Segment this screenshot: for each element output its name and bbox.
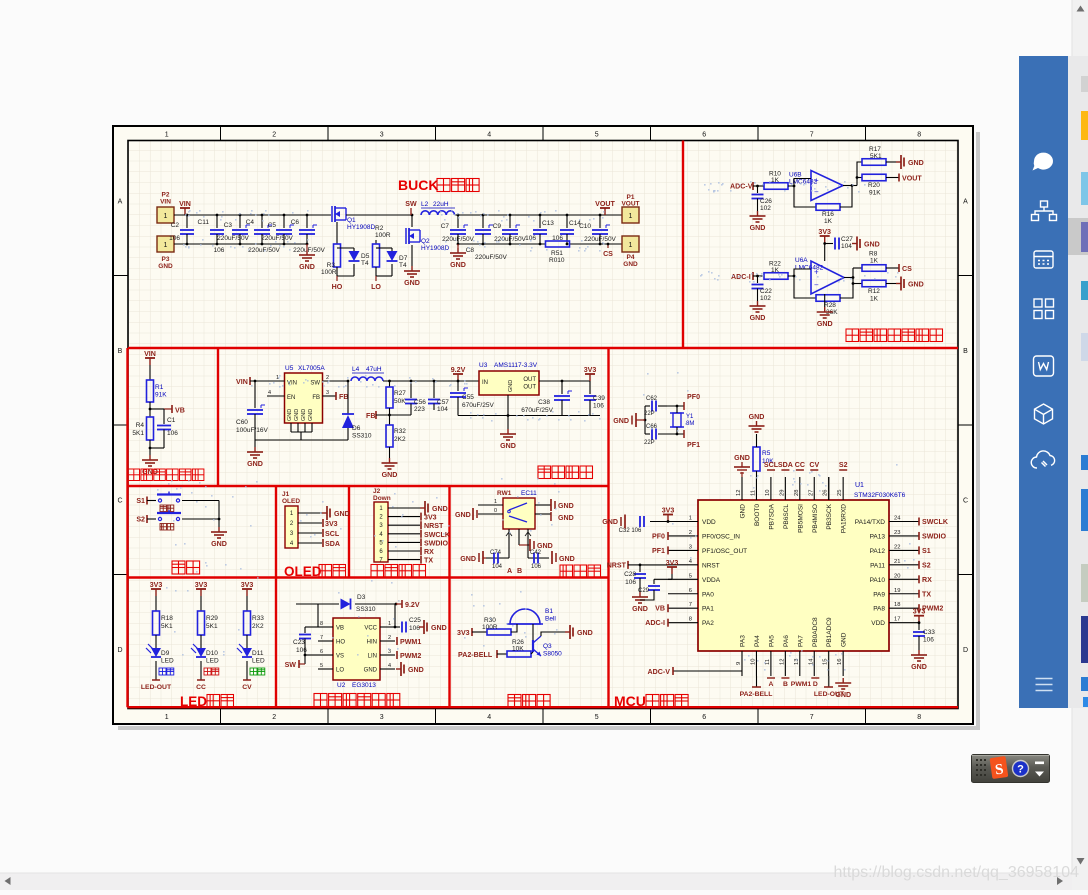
svg-text:U2: U2 [337, 682, 346, 689]
ground U2 pin4 [396, 668, 401, 670]
svg-text:C23: C23 [293, 639, 305, 646]
ground C74 [482, 551, 484, 564]
resistor R18 5K1 [155, 596, 157, 611]
svg-text:VB: VB [655, 605, 665, 613]
pins U1 bottom side [741, 651, 743, 676]
resistor R10 1K [764, 183, 788, 190]
svg-text:C13: C13 [542, 220, 554, 227]
svg-text:6: 6 [702, 714, 706, 721]
resistor R4 5K1 [147, 417, 154, 440]
svg-text:LED: LED [180, 694, 207, 709]
capacitor C5 [283, 215, 285, 228]
capacitor C29 106 [654, 578, 672, 580]
svg-text:MCU: MCU [614, 693, 646, 709]
svg-text:CC: CC [795, 461, 805, 469]
diode D6 SS310 [347, 381, 349, 414]
svg-text:106: 106 [531, 564, 542, 570]
svg-text:C1: C1 [167, 417, 176, 424]
capacitor C60 100uF/16V [254, 381, 256, 408]
svg-text:ADC-I: ADC-I [645, 619, 665, 627]
svg-text:11: 11 [750, 490, 756, 496]
svg-text:C9: C9 [493, 223, 502, 230]
wire aux top rail [383, 380, 479, 382]
svg-text:VIN: VIN [160, 199, 171, 206]
svg-text:3: 3 [689, 544, 692, 550]
svg-text:3V3: 3V3 [457, 629, 470, 637]
power 3V3 R33 [246, 589, 248, 596]
port P2 VIN [157, 207, 174, 223]
svg-text:C56: C56 [414, 399, 426, 406]
sogou help button [1013, 761, 1029, 777]
svg-text:7: 7 [810, 132, 814, 139]
block title 输入电压检测 [128, 469, 140, 481]
svg-text:GND: GND [455, 511, 471, 519]
ground C27 [852, 243, 857, 245]
svg-text:PWM1: PWM1 [400, 638, 421, 646]
svg-text:12: 12 [779, 659, 785, 665]
svg-text:PA2-BELL: PA2-BELL [740, 691, 773, 698]
net label ADC-V wire to pin9 [673, 670, 742, 672]
net label LO [375, 276, 377, 281]
svg-text:PF0: PF0 [687, 393, 700, 401]
svg-text:PB3SCK: PB3SCK [826, 503, 833, 529]
svg-text:CC: CC [196, 684, 206, 691]
svg-text:GND: GND [247, 460, 263, 468]
net label NRST pin4 [640, 564, 668, 566]
net label 9.2V halfbridge [395, 603, 398, 606]
svg-text:8: 8 [917, 714, 921, 721]
svg-text:220uF/50V: 220uF/50V [293, 247, 325, 254]
svg-text:S1: S1 [922, 547, 931, 555]
ground under pin16 [842, 678, 844, 683]
capacitor C26 102 [757, 186, 759, 193]
svg-text:PA13: PA13 [870, 533, 886, 540]
svg-text:S2: S2 [839, 461, 848, 469]
svg-text:47uH: 47uH [366, 366, 382, 373]
svg-text:C55: C55 [462, 394, 474, 401]
block title 半桥驱动芯片 [314, 694, 327, 707]
pin wires U5 [267, 380, 285, 382]
svg-text:NRST: NRST [424, 522, 444, 530]
svg-text:BOOT0: BOOT0 [754, 504, 761, 526]
svg-text:EG3013: EG3013 [352, 682, 376, 689]
ground Q2 source [411, 245, 413, 266]
svg-text:GND: GND [508, 380, 514, 392]
wires U5 ground pins [290, 423, 292, 432]
power 3V3 pin17 [918, 616, 920, 623]
svg-text:D5: D5 [361, 253, 370, 260]
svg-text:22P: 22P [644, 440, 655, 446]
resistor R27 50K [389, 381, 391, 387]
ground above R5 [756, 434, 758, 447]
capacitor C33 106 [918, 623, 920, 630]
svg-text:C74: C74 [490, 550, 502, 556]
svg-text:RW1: RW1 [497, 490, 512, 497]
svg-text:GND: GND [334, 510, 350, 518]
power 3V3 pin1 [667, 515, 669, 522]
capacitor C1 106 [163, 409, 165, 424]
svg-text:106: 106 [923, 637, 934, 644]
svg-text:2K2: 2K2 [394, 436, 406, 443]
ground C60 [254, 447, 256, 452]
svg-text:SW: SW [285, 661, 297, 669]
LED D9 [155, 635, 157, 648]
svg-text:100R: 100R [482, 624, 498, 631]
svg-text:10: 10 [750, 659, 756, 665]
ground C32 [624, 515, 626, 529]
svg-text:26: 26 [823, 490, 829, 496]
capacitor C32 106 [650, 521, 668, 523]
svg-text:21: 21 [894, 559, 900, 565]
svg-text:R8: R8 [869, 251, 878, 258]
svg-text:C32 106: C32 106 [619, 528, 642, 534]
svg-text:R20: R20 [868, 182, 880, 189]
svg-text:3V3: 3V3 [584, 366, 597, 374]
power 3V3 R18 [155, 589, 157, 596]
compile mark speckles [222, 211, 224, 213]
svg-text:C6: C6 [291, 219, 300, 226]
port P4 GND [622, 236, 639, 252]
svg-text:PF1/OSC_OUT: PF1/OSC_OUT [702, 548, 747, 555]
svg-text:C10: C10 [579, 223, 591, 230]
wire to ground node [149, 440, 151, 455]
svg-text:5: 5 [595, 132, 599, 139]
svg-text:STM32F030K6T6: STM32F030K6T6 [854, 492, 906, 499]
color label D11 [250, 668, 257, 675]
svg-text:U6B: U6B [789, 172, 802, 179]
svg-text:PA9: PA9 [873, 591, 885, 598]
svg-text:ADC-V: ADC-V [730, 183, 753, 191]
svg-text:SCL: SCL [325, 530, 340, 538]
svg-text:R1: R1 [155, 384, 164, 391]
svg-text:Bell: Bell [545, 616, 556, 623]
sheet outer frame [113, 126, 973, 724]
svg-text:12: 12 [736, 490, 742, 496]
svg-text:R28: R28 [824, 302, 836, 309]
wire pin26 stub [828, 477, 830, 500]
svg-text:D: D [117, 647, 122, 654]
svg-text:GND: GND [404, 279, 420, 287]
pins U1 left side [668, 521, 698, 523]
net label LED-OUT under pin15 [828, 676, 830, 687]
pins U1 right side [889, 521, 919, 523]
svg-text:9.2V: 9.2V [451, 366, 466, 374]
svg-text:L2: L2 [421, 201, 429, 208]
svg-text:PB5MOSI: PB5MOSI [797, 504, 804, 533]
wire SW node [346, 214, 412, 216]
svg-text:R12: R12 [868, 288, 880, 295]
svg-text:GND: GND [294, 409, 300, 421]
capacitor C11 [216, 215, 218, 228]
toolbar icon hamburger menu [1036, 679, 1053, 691]
power 3V3 VDDA [671, 567, 673, 574]
svg-text:PB6SCL: PB6SCL [783, 504, 790, 529]
resistor R33 2K2 [246, 596, 248, 611]
transistor Q1 HY1908D [331, 206, 333, 222]
svg-text:https://blog.csdn.net/qq_36958: https://blog.csdn.net/qq_36958104 [833, 864, 1079, 881]
net label CS [607, 244, 609, 248]
svg-text:R2: R2 [375, 225, 384, 232]
thumbnail block 8 [1081, 564, 1088, 602]
ground switches [218, 527, 220, 532]
svg-text:Down: Down [373, 495, 391, 502]
svg-text:220uF/50V: 220uF/50V [217, 235, 249, 242]
buzzer B1 [510, 609, 540, 624]
svg-text:18: 18 [894, 602, 900, 608]
svg-text:OLED: OLED [284, 564, 322, 579]
svg-text:T4: T4 [361, 260, 369, 267]
ground input bus [306, 244, 308, 250]
thumbnail block 2 [1081, 111, 1088, 140]
net labels right of U1 [918, 518, 920, 526]
svg-text:C: C [963, 497, 968, 504]
wires encoder bottom pins [508, 529, 510, 540]
svg-text:GND: GND [911, 663, 927, 671]
net label ADC-I pin8 [667, 619, 669, 627]
svg-text:GND: GND [431, 624, 447, 632]
svg-text:B1: B1 [545, 608, 553, 615]
wire output bus [455, 214, 622, 216]
svg-text:14: 14 [808, 658, 814, 665]
wire R26 to base [531, 652, 533, 654]
block title 辅助电源 [538, 466, 551, 479]
svg-text:4: 4 [487, 132, 491, 139]
LED D11 [246, 635, 248, 648]
svg-text:7: 7 [689, 602, 692, 608]
ground R32 [389, 458, 391, 463]
svg-text:106: 106 [409, 625, 420, 632]
svg-text:OLED: OLED [282, 498, 300, 505]
svg-text:HIN: HIN [367, 640, 377, 646]
IC U3 AMS1117-3.3V [479, 371, 539, 395]
capacitor C28 106 [639, 565, 641, 572]
svg-text:D: D [963, 647, 968, 654]
wire output bottom bus [458, 243, 545, 245]
svg-text:GND: GND [301, 409, 307, 421]
resistor R5 10K [753, 447, 760, 471]
svg-text:25: 25 [837, 490, 843, 496]
svg-text:220uF/50V: 220uF/50V [442, 236, 474, 243]
svg-text:7: 7 [810, 714, 814, 721]
resistor R32 2K2 [389, 415, 391, 425]
svg-text:670uF/25V: 670uF/25V [521, 407, 553, 414]
color label D9 [159, 668, 166, 675]
svg-text:C57: C57 [437, 399, 449, 406]
svg-text:VCC: VCC [364, 626, 377, 632]
svg-text:B: B [783, 681, 788, 688]
svg-text:C: C [117, 497, 122, 504]
svg-text:220uF/50V: 220uF/50V [475, 254, 507, 261]
thumbnail block 7 [1081, 489, 1088, 531]
svg-text:91K: 91K [869, 190, 881, 197]
svg-text:RX: RX [424, 548, 434, 556]
svg-text:−: − [814, 280, 819, 289]
resistor R16 1K feedback [816, 204, 840, 211]
svg-text:SDA: SDA [325, 540, 340, 548]
svg-text:U6A: U6A [795, 257, 808, 264]
toolbar icon calendar [1034, 251, 1053, 268]
wire VCC node [394, 604, 396, 627]
svg-text:Q2: Q2 [421, 238, 430, 245]
browser vertical scrollbar bottom [1072, 708, 1088, 873]
svg-text:220uF/50V: 220uF/50V [261, 235, 293, 242]
wire ADC-V to R10 [753, 185, 764, 187]
resistor R3 100R [336, 222, 338, 244]
svg-text:D3: D3 [357, 594, 366, 601]
svg-text:PA7: PA7 [797, 635, 804, 647]
svg-text:HO: HO [336, 640, 345, 646]
svg-text:VOUT: VOUT [595, 200, 615, 208]
svg-text:PA8: PA8 [873, 606, 885, 613]
svg-text:GND: GND [749, 413, 765, 421]
svg-text:GND: GND [558, 514, 574, 522]
svg-text:5K1: 5K1 [161, 623, 173, 630]
svg-text:3: 3 [388, 649, 391, 655]
svg-text:PB4MISO: PB4MISO [812, 504, 819, 533]
wire ADC-I to R22 [753, 275, 764, 277]
svg-text:3: 3 [380, 132, 384, 139]
svg-text:Y1: Y1 [686, 414, 694, 420]
svg-text:PF0: PF0 [652, 533, 665, 541]
blue side toolbar panel [1019, 56, 1068, 708]
wire buzzer to transistor [532, 624, 534, 640]
svg-text:PA6: PA6 [783, 635, 790, 647]
svg-text:+: + [814, 267, 819, 276]
svg-text:LO: LO [371, 283, 381, 291]
sheet drop shadow [976, 132, 980, 728]
wire top input bus [174, 214, 331, 216]
svg-text:A: A [963, 198, 968, 205]
svg-text:GND: GND [500, 442, 516, 450]
svg-text:28: 28 [794, 490, 800, 496]
thumbnail block 5 [1081, 333, 1088, 361]
svg-text:R3: R3 [327, 262, 336, 269]
svg-text:19: 19 [894, 588, 900, 594]
svg-text:100R: 100R [375, 232, 391, 239]
capacitor C57 104 [433, 381, 435, 398]
toolbar icon chat bubble [1033, 153, 1053, 171]
ground C22 [757, 301, 759, 306]
svg-text:PA2-BELL: PA2-BELL [458, 651, 493, 659]
svg-text:S2: S2 [922, 561, 931, 569]
svg-text:PA11: PA11 [870, 562, 885, 569]
svg-text:R5: R5 [762, 450, 771, 457]
wire divider node [149, 402, 151, 417]
svg-text:1: 1 [388, 621, 391, 627]
toolbar icon sitemap [1032, 201, 1057, 221]
svg-text:2: 2 [272, 132, 276, 139]
svg-text:PF1: PF1 [652, 547, 665, 555]
net label SW halfbridge [299, 663, 305, 665]
svg-text:U3: U3 [479, 362, 488, 369]
svg-text:PA15RXD: PA15RXD [841, 504, 848, 533]
svg-text:C11: C11 [198, 219, 210, 226]
net label HO [336, 276, 338, 281]
wire bottom input bus [174, 243, 307, 245]
net label PF1 crystal [683, 430, 685, 438]
pin wires U2 right [380, 626, 395, 628]
ground above pin12 [741, 472, 743, 477]
resistor R17 5K1 [862, 159, 886, 166]
svg-text:OUT: OUT [523, 385, 536, 391]
svg-text:J2: J2 [373, 488, 381, 495]
scrollbar corner [1072, 873, 1088, 890]
svg-text:104: 104 [841, 243, 852, 250]
svg-text:SWDIO: SWDIO [922, 532, 947, 540]
sheet ruler ticks and zone labels [113, 126, 973, 724]
svg-text:R4: R4 [136, 422, 145, 429]
capacitor C23 106 [305, 626, 318, 628]
crystal Y1 8M [673, 413, 681, 427]
svg-text:Q1: Q1 [347, 217, 356, 224]
thumbnail strip panel [1068, 56, 1088, 708]
svg-text:C29: C29 [638, 588, 650, 594]
net label PF0 pin2 [667, 532, 669, 540]
net label PA2-BELL under pin10 [756, 676, 758, 687]
svg-text:GND: GND [864, 241, 880, 249]
svg-text:6: 6 [689, 588, 692, 594]
svg-text:A: A [507, 567, 512, 575]
sogou S logo [990, 756, 1009, 779]
svg-text:GND: GND [211, 540, 227, 548]
svg-text:VOUT: VOUT [902, 175, 922, 183]
svg-text:1: 1 [164, 213, 168, 220]
ground crystal [644, 406, 646, 434]
svg-text:NRST: NRST [607, 562, 627, 570]
wires U3 [727, 380, 729, 382]
resistor R51 R010 current sense [546, 241, 570, 247]
capacitor C7 [457, 215, 459, 228]
ground R17 [886, 161, 896, 163]
wire op-amp U6A inputs [788, 269, 811, 276]
label under S1 [160, 505, 167, 512]
svg-text:EC11: EC11 [521, 490, 537, 497]
thumbnail block 9 [1081, 616, 1088, 663]
svg-text:PWM2: PWM2 [400, 652, 421, 660]
svg-text:D6: D6 [352, 425, 361, 432]
svg-text:1: 1 [164, 242, 168, 249]
capacitor C25 106 [395, 626, 400, 628]
svg-text:FB: FB [366, 412, 375, 420]
ground R12 [886, 283, 896, 285]
svg-text:LED: LED [252, 658, 265, 665]
svg-text:SWDIO: SWDIO [424, 539, 449, 547]
svg-text:1: 1 [689, 516, 692, 522]
svg-text:B: B [517, 567, 522, 575]
svg-text:4: 4 [388, 663, 391, 669]
svg-text:22: 22 [894, 544, 900, 550]
net label PF1 pin3 [667, 546, 669, 554]
svg-text:7: 7 [320, 635, 323, 641]
svg-text:AMS1117-3.3V: AMS1117-3.3V [494, 362, 538, 369]
svg-text:PA5: PA5 [768, 635, 775, 647]
resistor R29 5K1 [200, 596, 202, 611]
svg-text:GND: GND [460, 555, 476, 563]
diode D3 SS310 [296, 603, 339, 605]
svg-text:0: 0 [494, 508, 497, 514]
svg-text:C22: C22 [760, 288, 772, 295]
sogou minimize and arrow [1035, 762, 1044, 765]
capacitor C4 [261, 215, 263, 228]
svg-text:3V3: 3V3 [913, 608, 926, 616]
svg-text:GND: GND [432, 505, 448, 513]
svg-text:GND: GND [817, 320, 833, 328]
svg-text:8M: 8M [686, 421, 694, 427]
net label LED-OUT [155, 661, 157, 680]
svg-text:3V3: 3V3 [818, 228, 831, 236]
svg-text:BUCK: BUCK [398, 177, 438, 193]
svg-text:FB: FB [312, 395, 320, 401]
